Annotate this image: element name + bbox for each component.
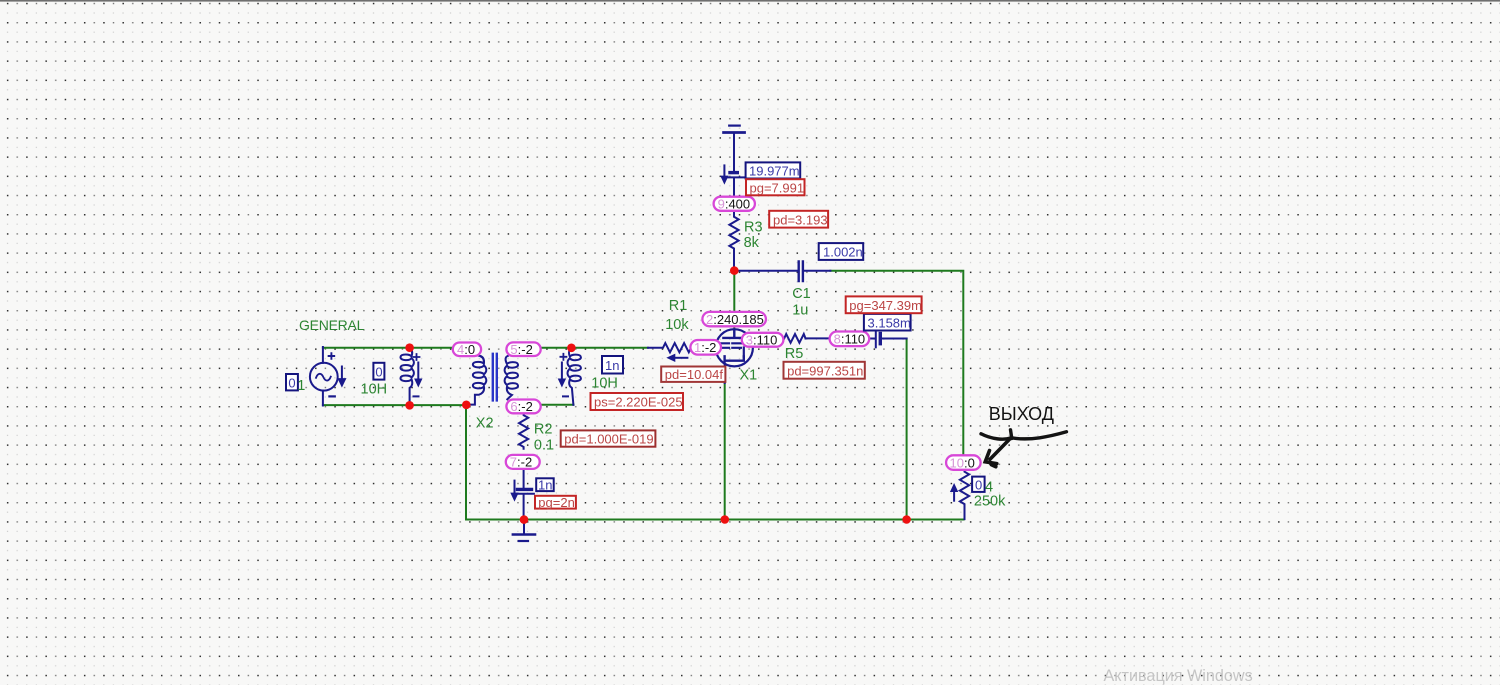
node oval 4:0	[453, 342, 481, 357]
power box pg=7.991	[746, 179, 805, 195]
resistor R4 arrow	[953, 491, 955, 501]
svg-text:pg=7.991: pg=7.991	[750, 180, 805, 195]
wire R5 to node 8	[806, 337, 830, 339]
svg-text:1:-2: 1:-2	[694, 340, 716, 355]
source V1 sine	[316, 374, 331, 381]
power box pg=2n	[535, 495, 576, 510]
power box pd=3.193	[769, 211, 828, 228]
wire top-left from source to node 4	[323, 347, 453, 349]
triode X1 plate	[723, 331, 745, 338]
svg-text:X1: X1	[740, 368, 758, 384]
triode X1 envelope	[716, 329, 753, 366]
wire left vertical drop	[465, 405, 467, 520]
value box 3.158m	[864, 314, 911, 331]
transformer X2 left coil	[466, 356, 486, 405]
svg-text:X2: X2	[476, 415, 494, 431]
wire node 2 to plate	[733, 326, 735, 332]
svg-text:10H: 10H	[591, 375, 618, 391]
svg-text:0: 0	[975, 478, 982, 493]
battery V2 arrow	[723, 165, 725, 176]
svg-text:9:400: 9:400	[718, 197, 751, 212]
node oval 6:-2	[506, 399, 540, 414]
value box L2 1n	[602, 356, 623, 374]
wire from node 5 to R1	[541, 347, 648, 349]
ground bottom	[523, 520, 525, 535]
value box 1.002n	[819, 243, 864, 260]
svg-text:R1: R1	[669, 298, 688, 314]
junction dot A	[405, 343, 414, 352]
value box L1 0	[373, 363, 384, 380]
triode X1 grid dashes	[720, 342, 740, 344]
junction dot E	[730, 266, 739, 275]
triode X1 cathode bottom lead	[724, 361, 726, 383]
wire C1 right to output corner	[830, 271, 963, 455]
inductor L1 arrow	[417, 363, 419, 380]
svg-text:3:110: 3:110	[746, 333, 778, 348]
node oval 5:-2	[506, 342, 540, 357]
top window edge	[0, 0, 1500, 2]
junction dot F	[520, 515, 529, 524]
node oval 10:0	[946, 455, 981, 470]
svg-text:19.977m: 19.977m	[749, 164, 800, 179]
battery V3 under R2	[523, 469, 525, 489]
wire right battery drop to rail	[906, 339, 908, 520]
inductor L1 minus	[414, 395, 419, 397]
power box pd=1.000E-019	[561, 430, 656, 446]
svg-text:0: 0	[288, 375, 295, 390]
svg-text:10:0: 10:0	[950, 455, 975, 470]
annotation hand-drawn brace	[981, 430, 1067, 439]
svg-text:2:240.185: 2:240.185	[706, 312, 764, 327]
junction dot D	[462, 401, 471, 410]
svg-text:pg=347.39m: pg=347.39m	[849, 298, 922, 313]
svg-text:pd=3.193: pd=3.193	[773, 212, 828, 227]
svg-text:1.002n: 1.002n	[823, 245, 863, 260]
svg-text:R3: R3	[744, 220, 763, 236]
junction dot B	[567, 344, 576, 353]
wire R3 to node 2 (plate)	[733, 271, 735, 313]
power box pd=997.351n	[784, 362, 865, 379]
svg-text:8:110: 8:110	[834, 332, 866, 347]
inductor L2 coil	[568, 348, 581, 405]
triode X1 cathode	[725, 356, 744, 360]
svg-text:4:0: 4:0	[457, 342, 475, 357]
resistor R1 arrow	[674, 357, 687, 359]
wire bottom-left from source to transformer	[323, 404, 466, 406]
node oval 1:-2	[690, 340, 721, 355]
resistor R3	[729, 211, 738, 271]
svg-text:pg=2n: pg=2n	[538, 495, 575, 510]
inductor L2 minus	[563, 395, 568, 397]
svg-text:6:-2: 6:-2	[510, 399, 532, 414]
junction dot G	[721, 515, 730, 524]
triode X1 grid lead	[716, 346, 721, 348]
svg-text:GENERAL: GENERAL	[299, 317, 365, 333]
svg-text:ps=2.220E-025: ps=2.220E-025	[594, 395, 683, 410]
source V1 plus	[329, 353, 335, 359]
resistor R1	[648, 343, 692, 352]
svg-text:pd=997.351n: pd=997.351n	[787, 363, 863, 378]
svg-text:1n: 1n	[538, 477, 552, 492]
svg-text:7:-2: 7:-2	[510, 455, 532, 470]
node oval 9:400	[714, 197, 755, 212]
triode X1 cathode arm to node 3	[743, 348, 745, 357]
battery V2 top	[730, 171, 737, 174]
svg-text:3.158m: 3.158m	[868, 315, 911, 330]
source V1 current arrow	[341, 367, 343, 381]
svg-text:R2: R2	[534, 421, 553, 437]
battery V4 right	[869, 338, 875, 340]
wire node 6 to right coil bottom	[541, 404, 574, 406]
svg-text:8k: 8k	[744, 235, 760, 251]
svg-text:5:-2: 5:-2	[510, 342, 532, 357]
resistor R4	[960, 470, 969, 519]
svg-text:pd=1.000E-019: pd=1.000E-019	[564, 432, 653, 447]
inductor L1 plus	[414, 354, 420, 360]
inductor L1 coil	[400, 348, 413, 405]
junction dot C	[405, 401, 414, 410]
svg-text:1n: 1n	[605, 358, 619, 373]
annotation hand-drawn arrow	[985, 438, 1011, 467]
svg-text:ВЫХОД: ВЫХОД	[989, 404, 1054, 424]
svg-text:R5: R5	[785, 346, 804, 362]
power box pd=10.04f	[661, 367, 725, 383]
wire cathode to bottom rail	[724, 382, 726, 520]
svg-text:pd=10.04f: pd=10.04f	[665, 367, 724, 382]
node oval 8:110	[830, 332, 870, 347]
source V1 stubs	[322, 347, 324, 406]
svg-text:Активация Windows: Активация Windows	[1104, 667, 1253, 685]
node oval 2:240.185	[702, 312, 766, 327]
value box V3 1n	[536, 477, 554, 492]
svg-text:250k: 250k	[974, 493, 1006, 509]
svg-text:1u: 1u	[792, 302, 808, 318]
battery V3 arrow	[514, 481, 516, 494]
transformer X2 core	[493, 354, 497, 401]
svg-text:10H: 10H	[361, 381, 388, 397]
capacitor C1 left lead	[734, 270, 798, 272]
value box V1 0	[286, 374, 298, 390]
node oval 7:-2	[506, 455, 540, 470]
wire bottom rail	[466, 519, 964, 521]
power box pg=347.39m	[846, 296, 922, 313]
inductor L2 plus	[560, 354, 566, 360]
node oval 3:110	[742, 333, 784, 348]
junction dot H	[902, 515, 911, 524]
svg-text:1: 1	[297, 378, 305, 394]
svg-text:10k: 10k	[665, 317, 689, 333]
value box R4 0	[972, 477, 985, 493]
source V1 circle	[310, 363, 338, 391]
inductor L2 arrow	[561, 363, 563, 380]
resistor R5	[784, 334, 805, 343]
source V1 minus	[329, 395, 334, 397]
svg-text:0.1: 0.1	[534, 438, 554, 454]
capacitor C1 right lead	[803, 270, 830, 272]
ground top (inverted)	[729, 124, 740, 126]
power box ps=-2.220E-025	[591, 393, 684, 410]
svg-text:0: 0	[375, 365, 382, 380]
capacitor C1 plates	[799, 261, 803, 281]
value box 19.977m	[746, 162, 801, 178]
svg-text:C1: C1	[792, 286, 811, 302]
resistor R2	[519, 414, 528, 449]
transformer X2 right coil	[505, 356, 518, 399]
